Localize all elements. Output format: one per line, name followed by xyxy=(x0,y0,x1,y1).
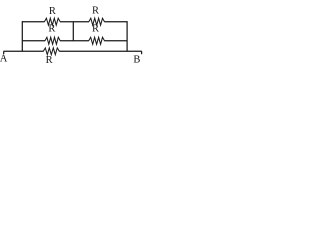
resistor R4 (middle-right) xyxy=(89,37,105,44)
svg-text:R: R xyxy=(92,5,99,16)
svg-text:R: R xyxy=(92,23,99,34)
wire: right vertical joining top, middle and bottom rails xyxy=(126,21,128,51)
svg-text:A: A xyxy=(0,53,8,64)
resistor R1 (top-left) xyxy=(44,18,60,25)
svg-text:R: R xyxy=(46,55,53,66)
svg-text:R: R xyxy=(49,6,56,17)
resistor R2 (top-right) xyxy=(89,18,105,25)
node B xyxy=(133,51,141,65)
wire: middle branch rail xyxy=(22,40,127,42)
wire: bottom rail from A to B xyxy=(4,50,142,52)
svg-text:R: R xyxy=(48,24,55,35)
wire: middle vertical joining top and middle branches xyxy=(72,22,74,41)
svg-text:B: B xyxy=(133,55,140,66)
resistor R5 (bottom rail) xyxy=(43,48,59,55)
node A xyxy=(0,51,8,64)
resistor R3 (middle-left) xyxy=(45,37,60,44)
wire: top branch rail xyxy=(22,21,127,23)
wire: left vertical joining top, middle and bottom rails xyxy=(21,21,23,51)
